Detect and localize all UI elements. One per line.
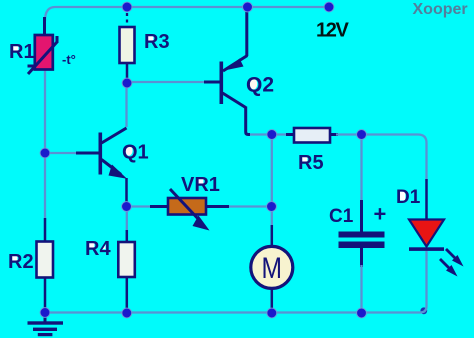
- label Q1: [122, 142, 149, 164]
- svg-text:Q1: Q1: [122, 142, 149, 164]
- junction node 12V supply: [324, 2, 334, 12]
- wire C1 bottom lead: [360, 248, 363, 311]
- junction node ground rail at motor: [267, 308, 277, 318]
- svg-text:Xooper: Xooper: [413, 1, 468, 18]
- svg-text:VR1: VR1: [181, 174, 220, 196]
- svg-text:R3: R3: [144, 31, 170, 53]
- label R1: [9, 41, 35, 63]
- transistor Q1: [99, 128, 128, 179]
- corner blob bottom right rail: [420, 307, 427, 314]
- wire C1 top lead: [360, 138, 362, 232]
- junction node ground rail at R4: [122, 308, 132, 318]
- label VR1: [181, 174, 220, 196]
- junction node Q1 base / left rail: [40, 148, 50, 158]
- label R2: [8, 251, 34, 273]
- wire Q2 collector down to node H: [246, 107, 250, 135]
- svg-text:-t°: -t°: [62, 52, 76, 67]
- svg-text:R4: R4: [85, 238, 111, 260]
- LED D1 emission arrows: [440, 249, 464, 277]
- wire VR1 right to motor column: [206, 205, 269, 208]
- wire R2 bottom lead to ground node: [44, 277, 47, 313]
- wire node G to VR1 left: [129, 205, 168, 207]
- wire R2 top lead: [44, 218, 47, 242]
- junction node top rail at Q2 emitter: [243, 2, 253, 12]
- transistor Q2: [220, 56, 248, 108]
- resistor R3 body: [120, 27, 135, 63]
- wire R5 right to node K: [330, 133, 359, 136]
- wire Q1 base: [46, 152, 100, 154]
- label R4: [85, 238, 111, 260]
- resistor R1 thermistor body: [28, 17, 58, 74]
- wire bottom ground rail with D1 cathode riser: [45, 251, 427, 313]
- wire top 12V supply rail: [45, 7, 329, 21]
- svg-text:+: +: [374, 202, 387, 227]
- junction node ground rail at C1: [357, 308, 367, 318]
- resistor R5 body: [294, 128, 330, 143]
- junction node VR1 right / motor column: [267, 202, 277, 212]
- svg-text:R2: R2: [8, 251, 34, 273]
- junction node Q1 emitter / VR1 / R4: [122, 202, 132, 212]
- junction node ground rail at R2: [40, 308, 50, 318]
- junction node H Q2 collector / R5 / motor: [267, 130, 277, 140]
- resistor R4 body: [118, 242, 135, 277]
- wire R3 dashed lead to supply rail: [126, 13, 128, 27]
- wire node K to D1 anode: [365, 135, 427, 182]
- svg-text:Q2: Q2: [246, 74, 274, 97]
- svg-text:12V: 12V: [316, 20, 349, 42]
- ground symbol: [28, 313, 64, 336]
- label Q2: [246, 74, 274, 97]
- wire Q2 base from R3 node: [130, 81, 220, 83]
- svg-text:D1: D1: [396, 187, 421, 208]
- label R3: [144, 31, 170, 53]
- wire Q1 emitter to node G: [125, 178, 128, 204]
- wire left rail (R1 bottom to R2 top): [44, 70, 46, 220]
- wire Q2 emitter riser to supply rail: [245, 6, 248, 56]
- svg-text:C1: C1: [329, 206, 354, 227]
- wire D1 anode lead: [425, 179, 428, 220]
- label D1: [396, 187, 421, 208]
- LED D1: [409, 220, 444, 251]
- svg-text:R5: R5: [298, 152, 324, 174]
- wire node H horizontal to R5: [250, 133, 294, 135]
- wire motor column from node H: [271, 138, 273, 311]
- svg-text:R1: R1: [9, 41, 35, 63]
- wire Q1 collector riser: [125, 86, 127, 127]
- svg-text:M: M: [262, 252, 283, 285]
- motor M: [251, 246, 293, 288]
- junction node top rail at R3: [122, 2, 132, 12]
- capacitor C1 plates: [339, 232, 385, 249]
- resistor R2 body: [37, 242, 54, 278]
- wire R4 column: [126, 209, 128, 311]
- junction node K R5 right / C1 / D1: [357, 130, 367, 140]
- label R5: [298, 152, 324, 174]
- junction node R3 bottom / Q2 base: [122, 78, 132, 88]
- wire R3 bottom lead: [126, 63, 129, 82]
- potentiometer VR1 body: [168, 189, 210, 231]
